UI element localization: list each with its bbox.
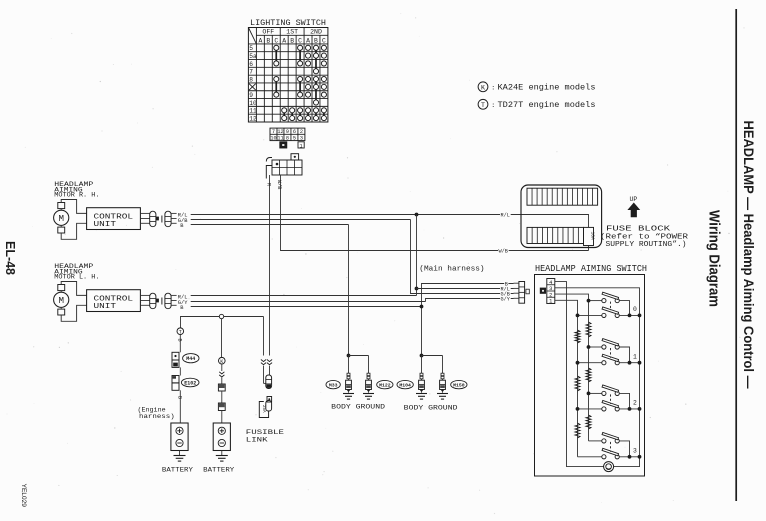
svg-text:A: A bbox=[258, 37, 262, 44]
svg-text:K: K bbox=[481, 84, 485, 91]
wire pin 3 to output rail bbox=[555, 288, 640, 467]
wire to E102 bbox=[179, 367, 181, 375]
svg-text:YEL029: YEL029 bbox=[20, 484, 27, 508]
svg-text:W/B: W/B bbox=[499, 249, 508, 255]
connector block bbox=[218, 403, 225, 411]
switch section 1 bbox=[576, 339, 642, 365]
svg-text:9: 9 bbox=[249, 92, 253, 99]
svg-text:T: T bbox=[481, 102, 485, 109]
svg-text:OFF: OFF bbox=[262, 29, 274, 36]
wire B from R.H. unit to body ground bbox=[191, 224, 349, 226]
svg-text:C: C bbox=[298, 37, 302, 44]
svg-text:M33: M33 bbox=[329, 382, 338, 388]
svg-text:0: 0 bbox=[633, 306, 637, 313]
svg-text:BATTERY: BATTERY bbox=[162, 467, 193, 475]
svg-text:9: 9 bbox=[286, 129, 289, 135]
illumination lamp bbox=[604, 462, 614, 472]
svg-text:M44: M44 bbox=[186, 356, 195, 362]
connector label M122 bbox=[377, 380, 393, 388]
svg-text:6: 6 bbox=[293, 129, 296, 135]
svg-text:KA24E engine models: KA24E engine models bbox=[498, 84, 596, 93]
svg-text:TD27T engine models: TD27T engine models bbox=[498, 101, 596, 110]
connector block bbox=[218, 384, 225, 391]
svg-text:HEADLAMP AIMING SWITCH: HEADLAMP AIMING SWITCH bbox=[535, 264, 647, 274]
note: T = TD27T engine models bbox=[478, 99, 596, 110]
wire R from lighting switch down to fusible link bbox=[269, 175, 271, 356]
svg-text:MOTOR R. H.: MOTOR R. H. bbox=[54, 192, 99, 199]
connector T (TD27T battery) bbox=[177, 328, 184, 335]
svg-text:SUPPLY ROUTING”.): SUPPLY ROUTING”.) bbox=[606, 241, 687, 249]
switch section 3 bbox=[578, 432, 642, 458]
ground symbol bbox=[343, 394, 354, 400]
ground symbol bbox=[416, 394, 427, 400]
wire G/B down to aiming switch pin 2 bbox=[411, 220, 514, 294]
connector harness side bbox=[162, 293, 177, 309]
connector K (KA24E battery) bbox=[219, 357, 226, 364]
body ground branch bbox=[347, 354, 369, 373]
svg-text:25A: 25A bbox=[261, 405, 265, 413]
wire R/L inside fuse block to fuse 10A bbox=[521, 215, 589, 228]
wire labels R.H.: R/L G/B B bbox=[178, 213, 188, 229]
wire G/Y to aiming switch pin 1 bbox=[426, 299, 514, 302]
svg-text:1: 1 bbox=[300, 143, 303, 149]
svg-text:2: 2 bbox=[549, 292, 552, 298]
headlamp aiming switch box bbox=[535, 275, 645, 477]
svg-text:B: B bbox=[266, 37, 270, 44]
svg-text:UNIT: UNIT bbox=[94, 221, 117, 229]
svg-text:BODY GROUND: BODY GROUND bbox=[331, 404, 385, 412]
svg-text:B: B bbox=[177, 339, 183, 342]
table column headers bbox=[258, 29, 326, 45]
svg-text:3: 3 bbox=[549, 286, 552, 292]
table continuity bars bbox=[276, 50, 324, 115]
table row labels 5-12 bbox=[249, 45, 257, 122]
connector E102 bbox=[172, 376, 179, 391]
svg-text:UNIT: UNIT bbox=[94, 303, 117, 311]
note: K = KA24E engine models bbox=[478, 82, 596, 93]
svg-text:W/B: W/B bbox=[276, 180, 282, 189]
wire pin 1 to resistor rail (lower) bbox=[555, 300, 578, 457]
body ground branch bbox=[420, 354, 443, 373]
svg-text:3: 3 bbox=[633, 448, 637, 455]
body ground connector M122 bbox=[366, 373, 372, 393]
svg-text:UP: UP bbox=[630, 196, 638, 203]
body ground connector M150 bbox=[440, 373, 446, 393]
svg-text:2: 2 bbox=[633, 400, 637, 407]
wire G/Y from L.H. unit bbox=[191, 301, 426, 303]
svg-text:(Main harness): (Main harness) bbox=[419, 266, 484, 274]
battery (KA24E) bbox=[213, 423, 230, 461]
wire B to battery (left) bbox=[177, 335, 183, 353]
wire B down to body ground bbox=[348, 225, 350, 356]
svg-text:7: 7 bbox=[249, 69, 253, 76]
svg-text:10: 10 bbox=[270, 135, 276, 141]
motor M (L.H.) bbox=[54, 285, 69, 316]
fusible link connector bbox=[264, 375, 272, 389]
svg-text:3: 3 bbox=[300, 135, 303, 141]
svg-text:1ST: 1ST bbox=[286, 29, 298, 36]
connector label M104 bbox=[397, 380, 413, 388]
svg-text:LINK: LINK bbox=[246, 437, 269, 445]
wire B aiming switch pin 4 to body ground bbox=[422, 284, 514, 356]
label fusible link bbox=[246, 429, 284, 445]
switch section 2 bbox=[576, 385, 642, 411]
connector: lighting switch harness side bbox=[266, 154, 302, 179]
svg-text:A: A bbox=[306, 37, 310, 44]
battery feed wire bbox=[181, 314, 264, 355]
svg-text:5a: 5a bbox=[249, 53, 257, 60]
svg-text:M104: M104 bbox=[399, 382, 411, 388]
svg-text:1: 1 bbox=[633, 353, 637, 360]
body ground connector M104 bbox=[419, 373, 425, 393]
inline connectors to fusible link bbox=[261, 360, 272, 384]
page margin rule (right) bbox=[735, 9, 737, 501]
connector at control unit bbox=[140, 211, 159, 227]
connector key pin 1 bbox=[298, 142, 304, 150]
svg-text:B: B bbox=[290, 37, 294, 44]
svg-text::: : bbox=[491, 85, 495, 92]
svg-text:HEADLAMP — Headlamp Aiming Con: HEADLAMP — Headlamp Aiming Control — bbox=[741, 121, 756, 389]
connector: lighting switch terminal grid bbox=[270, 128, 305, 141]
connector at control unit bbox=[140, 293, 159, 309]
svg-text:FUSE BLOCK: FUSE BLOCK bbox=[606, 226, 671, 234]
wire motor to control unit bbox=[61, 200, 86, 240]
svg-text:LIGHTING SWITCH: LIGHTING SWITCH bbox=[250, 19, 326, 28]
svg-text:B: B bbox=[177, 396, 183, 399]
svg-text:6: 6 bbox=[249, 61, 253, 68]
svg-text:M122: M122 bbox=[379, 382, 391, 388]
connector label M150 bbox=[451, 380, 467, 388]
fuse 10A bbox=[584, 227, 596, 245]
connector harness side (4 pin) bbox=[514, 282, 530, 304]
resistors rail 2 bbox=[586, 322, 591, 429]
lighting switch continuity table grid bbox=[248, 28, 328, 123]
svg-text:4: 4 bbox=[549, 280, 552, 286]
svg-text:1: 1 bbox=[549, 299, 552, 305]
wire W/B from fuse 10A bbox=[588, 246, 590, 251]
svg-text:G/Y: G/Y bbox=[501, 297, 511, 303]
wire to battery bbox=[177, 390, 183, 423]
wire R/L down to aiming switch bbox=[416, 215, 418, 296]
svg-text:EL-48: EL-48 bbox=[3, 241, 18, 275]
middle battery column wire bbox=[221, 319, 223, 357]
svg-text:2: 2 bbox=[300, 129, 303, 135]
svg-text:11: 11 bbox=[277, 135, 283, 141]
body ground connector M33 bbox=[346, 373, 352, 393]
svg-text:BATTERY: BATTERY bbox=[203, 467, 234, 475]
UP arrow bbox=[627, 196, 640, 217]
connector M44 bbox=[172, 352, 179, 367]
switch section 0 bbox=[576, 292, 642, 317]
wire B from L.H. unit bbox=[191, 306, 422, 308]
fusible link bbox=[259, 397, 271, 418]
svg-text:11: 11 bbox=[249, 108, 257, 115]
svg-text:(Refer to “POWER: (Refer to “POWER bbox=[600, 233, 689, 241]
wire G/B from R.H. unit bbox=[191, 219, 411, 221]
svg-text:2ND: 2ND bbox=[310, 29, 322, 36]
svg-text:E102: E102 bbox=[184, 380, 196, 386]
connector switch side pins 4,3,2,1 bbox=[540, 279, 555, 305]
svg-text:8: 8 bbox=[286, 135, 289, 141]
svg-text:C: C bbox=[322, 37, 326, 44]
fuse block bbox=[521, 185, 602, 248]
control unit L.H. bbox=[87, 290, 141, 312]
motor M (R.H.) bbox=[54, 203, 69, 234]
svg-text:B: B bbox=[505, 281, 508, 287]
junction R/L bbox=[415, 213, 419, 217]
wire pin 4 to lamp bbox=[555, 282, 604, 467]
svg-text:B: B bbox=[314, 37, 318, 44]
wire pin 2 to resistor rail (upper) bbox=[555, 294, 589, 441]
inline connector bbox=[219, 364, 224, 384]
svg-text:MOTOR L. H.: MOTOR L. H. bbox=[54, 274, 99, 281]
svg-text:7: 7 bbox=[272, 129, 275, 135]
svg-text::: : bbox=[491, 102, 495, 109]
engine harness note bbox=[138, 406, 175, 420]
svg-text:12: 12 bbox=[249, 115, 257, 122]
headlamp aiming motor L.H. label bbox=[54, 263, 99, 281]
svg-text:M: M bbox=[58, 213, 64, 224]
svg-text:5: 5 bbox=[293, 135, 296, 141]
wire labels L.H.: R/L G/Y B bbox=[178, 295, 188, 311]
svg-text:R/L: R/L bbox=[501, 213, 510, 219]
wire W/B from lighting switch to fuse block bbox=[281, 175, 589, 251]
battery (TD27T) bbox=[171, 423, 188, 461]
junction R/L to switch pin 3 bbox=[415, 287, 419, 291]
table contact circles bbox=[274, 45, 327, 120]
svg-text:10: 10 bbox=[249, 100, 257, 107]
wire bbox=[221, 391, 223, 403]
svg-text:8: 8 bbox=[249, 76, 253, 83]
svg-text:M: M bbox=[58, 295, 64, 306]
svg-text:10A: 10A bbox=[590, 232, 596, 241]
control unit R.H. bbox=[87, 208, 141, 230]
svg-text:R: R bbox=[266, 183, 272, 186]
svg-text:BODY GROUND: BODY GROUND bbox=[404, 405, 458, 413]
svg-text:harness): harness) bbox=[139, 413, 175, 420]
wire R/L from L.H. unit bbox=[191, 295, 417, 297]
connector label M33 bbox=[326, 380, 340, 388]
wire R/L from R.H. unit to fuse block bbox=[191, 214, 521, 216]
svg-text:Wiring Diagram: Wiring Diagram bbox=[706, 210, 723, 307]
svg-text:5: 5 bbox=[249, 45, 253, 52]
svg-text:12: 12 bbox=[277, 129, 283, 135]
ground symbol bbox=[437, 394, 448, 400]
junction B (L.H.) bbox=[420, 305, 424, 309]
svg-text:C: C bbox=[274, 37, 278, 44]
headlamp aiming motor R.H. label bbox=[54, 181, 99, 199]
ground symbol bbox=[363, 394, 374, 400]
resistors rail 1 bbox=[575, 330, 580, 438]
svg-text:A: A bbox=[282, 37, 286, 44]
svg-text:M150: M150 bbox=[453, 382, 465, 388]
connector harness side bbox=[162, 211, 177, 227]
wire bbox=[221, 411, 223, 424]
fuse block label bbox=[600, 226, 689, 250]
connector key (filled) bbox=[280, 142, 287, 148]
wire motor to control unit bbox=[61, 282, 86, 322]
